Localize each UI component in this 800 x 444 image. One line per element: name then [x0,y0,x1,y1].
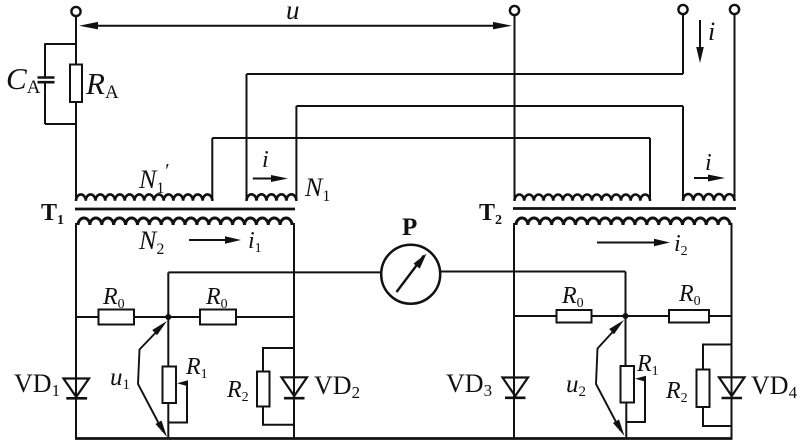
wire (N1' right end up) [211,138,213,201]
diode VD1 [64,379,90,399]
winding N1 (T1 primary right) [247,194,297,200]
svg-text:P: P [402,214,417,241]
node (T1 divider junction) [165,314,171,320]
wire (node to R1 T1) [167,317,169,367]
wire (T1 block right rail) [293,223,295,439]
label R0 (T2 right) [678,281,701,309]
svg-text:u: u [286,0,300,25]
wire (terminal to R_A) [75,16,77,66]
svg-text:i: i [708,17,715,46]
capacitor C_A [38,78,55,83]
label u2 [566,371,586,400]
winding N2 (T1 secondary) [78,218,292,225]
label i (top right) [708,17,715,46]
svg-text:′: ′ [164,160,169,182]
label R0 (T2 left) [561,283,584,311]
resistor R2 (T2) [697,370,710,408]
terminal (current input i, right) [730,5,739,14]
label N2 [138,226,164,258]
wire (R0 row T2) [514,315,732,317]
label R_A [85,66,119,103]
label T1 [41,200,64,228]
diode VD2 [282,377,308,398]
label R2 (T2) [665,378,688,406]
label i (T2) [705,150,712,176]
label u [286,0,300,25]
wire (R1 bottom to rail T2) [625,403,627,439]
voltage u double-headed arrow [79,22,512,30]
voltage u1 arc with arrowheads [138,321,167,437]
wiper arrow R1 (T2) [635,376,646,382]
resistor R0 (T1 right) [200,310,236,325]
resistor R0 (T2 right) [669,310,709,323]
wire (terminal A down to T2 primary left end) [514,15,516,202]
meter needle [397,254,427,293]
terminal (current input i, left) [678,5,687,14]
wire (R1 bottom to rail T1) [167,403,169,439]
rheostat R1 (T2) [621,366,635,403]
label N1 [304,173,330,205]
label R1 (T2) [636,351,659,379]
resistor R0 (T1 left) [99,310,135,325]
wire (capacitor branch left lower) [44,82,46,124]
label R2 (T1) [226,377,249,405]
label R0 (T1 left) [102,284,125,312]
resistor R2 (T1) [257,372,270,407]
current i2 arrow [597,239,670,246]
current i arrow (down, at right terminals) [696,20,704,63]
wire (R2 branch T2) [703,345,732,427]
winding N1' (T1 primary left) [76,194,212,200]
label R1 (T1) [185,354,208,382]
wire (capacitor branch bottom) [45,123,76,125]
label C_A [6,61,41,98]
wire (terminal C down to T2 coupling winding right end) [734,14,736,202]
label i (N1) [262,147,269,173]
svg-text:i: i [262,147,269,173]
meter P circle [381,245,440,304]
wire (y106 bus down to T2 coupling winding) [682,106,684,201]
voltage u2 arc with arrowheads [596,320,625,436]
diode VD4 [719,377,745,398]
label i2 [674,231,688,259]
label VD1 [14,369,60,400]
wire (T2 block left rail) [513,223,515,439]
winding T2 secondary [516,218,730,225]
resistor R_A [70,65,82,103]
label i1 [248,228,262,256]
winding T2 coupling (current winding) [683,194,734,201]
wire (terminal to y74 bus) [682,14,684,75]
resistor R0 (T2 left) [557,310,592,323]
wire (meter right to T2 node riser) [439,272,625,317]
label VD2 [314,371,360,402]
wire (R1 tap T1) [168,383,187,422]
label u1 [110,364,130,393]
label VD3 [446,369,492,400]
node (T2 divider junction) [623,313,629,319]
rheostat R1 (T1) [163,367,177,404]
wire (N1 right end up) [295,106,297,201]
wire (R0 row T1) [76,316,294,318]
wire (T1 block left rail) [75,223,77,439]
label P [402,214,417,241]
wire (R1 tap T2) [626,379,645,422]
wire (y138 bus horizontal) [212,137,650,139]
label R0 (T1 right) [205,284,228,312]
label N1' [138,160,169,197]
current i arrow (into T2 coupling winding) [694,175,725,182]
wire (y74 bus down to N1 left end) [246,74,248,201]
terminal (left input, top of C_A/R_A branch) [71,7,80,16]
current i arrow (into N1) [253,175,288,182]
diode VD3 [503,378,529,398]
terminal (top of T2 primary, right end of u arrow) [510,6,519,15]
current i1 arrow [189,236,241,244]
wire (capacitor branch top) [45,43,76,45]
label VD4 [751,371,798,402]
wire (R_A to N1' winding) [75,102,77,201]
wire (capacitor branch left upper) [44,43,46,77]
wire (node to R1 T2) [625,316,627,366]
wire (common bottom rail) [75,437,733,440]
wire (y106 bus horizontal) [296,105,683,107]
transformer T2 core [513,207,736,210]
label T2 [479,200,502,228]
wiper arrow R1 (T1) [177,380,188,386]
wire (node riser to meter, T1) [168,272,381,317]
wire (R2 branch T1) [263,348,294,425]
svg-text:i: i [705,150,712,176]
winding T2 primary [515,195,651,201]
wire (y74 bus horizontal) [247,73,684,75]
wire (T2 block right rail) [731,223,733,439]
wire (y138 bus down to T2 primary right end) [649,138,651,201]
transformer T1 core [75,208,295,211]
